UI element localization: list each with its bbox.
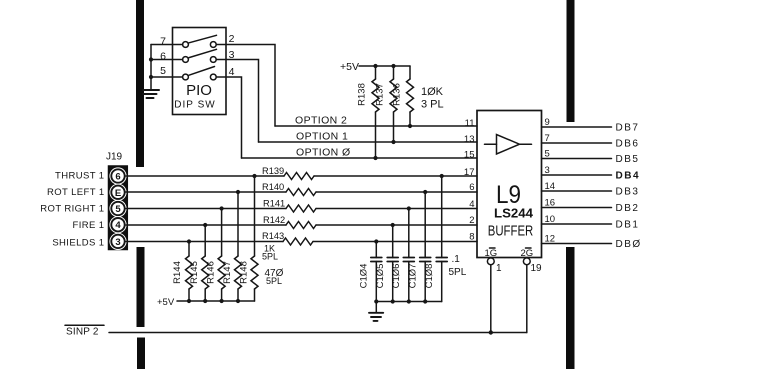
node: R137 to OPTION 1 xyxy=(391,140,395,144)
node: rail C106 xyxy=(407,299,411,303)
svg-text:R146: R146 xyxy=(206,261,217,284)
svg-text:.1: .1 xyxy=(452,254,461,265)
resistor R137 xyxy=(375,66,398,142)
+5V supply (pull-down rail) xyxy=(157,297,255,308)
switch SW2 (pins 6-3) xyxy=(183,49,217,62)
wire: DB7 xyxy=(542,123,640,134)
node: R138 to OPTION 0 xyxy=(373,156,377,160)
node: rail R146 xyxy=(220,299,224,303)
buffer L9 box xyxy=(477,111,542,258)
svg-text:3: 3 xyxy=(115,237,120,248)
svg-text:DB4: DB4 xyxy=(616,171,641,182)
svg-text:C1Ø6: C1Ø6 xyxy=(391,264,402,289)
capacitor C105 xyxy=(375,258,398,302)
svg-text:+5V: +5V xyxy=(157,297,175,308)
node: ROT RIGHT to C106 dropper xyxy=(407,206,411,210)
wire: DB0 xyxy=(542,239,642,250)
value label .1 5PL xyxy=(449,254,467,278)
switch SW3 (pins 5-4) xyxy=(183,67,217,80)
wire: dropper to C108 xyxy=(441,176,443,258)
connector J19 pin 6 (THRUST) xyxy=(109,167,126,184)
connector J19 pin 5 (ROT RIGHT) xyxy=(109,200,126,217)
node: FIRE to C105 dropper xyxy=(391,223,395,227)
capacitor C107 xyxy=(408,258,431,302)
resistor R144 xyxy=(172,256,193,301)
connector J19 pin 3 (SHIELDS) xyxy=(109,233,126,250)
svg-text:R138: R138 xyxy=(357,83,368,106)
svg-text:15: 15 xyxy=(464,150,475,161)
wire: OPTION 2 to pin 11 xyxy=(275,125,477,127)
buffer symbol triangle xyxy=(485,135,532,155)
svg-text:R142: R142 xyxy=(263,215,285,225)
wire: dropper to C106 xyxy=(408,209,410,258)
node: FIRE to R145 dropper xyxy=(203,223,207,227)
svg-text:5: 5 xyxy=(115,204,121,215)
node: +5V rail to R137 xyxy=(391,64,395,68)
svg-text:4: 4 xyxy=(469,199,474,210)
svg-text:R141: R141 xyxy=(263,199,285,209)
wire: 2G to SINP2 xyxy=(526,265,528,333)
svg-text:ROT RIGHT 1: ROT RIGHT 1 xyxy=(40,204,104,215)
wire: DB5 xyxy=(542,154,640,165)
page edge bars (decorative) xyxy=(136,0,575,369)
wire: dropper to R145 xyxy=(204,225,206,256)
svg-text:11: 11 xyxy=(465,118,475,129)
svg-text:5: 5 xyxy=(160,65,166,77)
svg-text:6: 6 xyxy=(115,172,120,183)
svg-text:J19: J19 xyxy=(106,152,123,163)
wire: DIP pin 3 to OPTION 1 xyxy=(216,60,258,143)
svg-text:BUFFER: BUFFER xyxy=(488,224,534,240)
svg-text:OPTION 2: OPTION 2 xyxy=(295,115,347,127)
wire: FIRE row to pin 2 xyxy=(126,224,477,226)
svg-text:OPTION Ø: OPTION Ø xyxy=(296,147,351,159)
wire: DIP pin 4 to OPTION 0 xyxy=(216,77,241,158)
svg-text:1ØK: 1ØK xyxy=(421,86,444,98)
node: ROT LEFT to R147 dropper xyxy=(236,190,240,194)
switch SW1 (pins 7-2) xyxy=(183,35,217,47)
svg-text:ROT LEFT 1: ROT LEFT 1 xyxy=(47,187,105,198)
svg-text:5PL: 5PL xyxy=(262,252,278,262)
node: rail C107 xyxy=(423,299,427,303)
svg-text:SHIELDS 1: SHIELDS 1 xyxy=(52,238,104,249)
resistor R147 xyxy=(222,256,242,301)
resistor R146 xyxy=(206,256,226,301)
resistor R140 xyxy=(262,182,316,196)
wire: dropper to R147 xyxy=(237,192,239,256)
buffer enable 1G pin 1 xyxy=(485,248,503,274)
svg-text:3 PL: 3 PL xyxy=(421,99,444,111)
node: SHIELDS to R144 dropper xyxy=(187,239,191,243)
svg-text:C1Ø5: C1Ø5 xyxy=(375,264,386,289)
svg-text:L9: L9 xyxy=(496,181,521,209)
DIP switch PIO box xyxy=(173,28,227,115)
wire: dropper to C105 xyxy=(392,225,394,258)
wire: SINP2 xyxy=(109,332,527,334)
ground (DIP switch) xyxy=(143,90,159,98)
wire: SHIELDS row to pin 8 xyxy=(126,241,477,243)
node: SHIELDS to C104 dropper xyxy=(374,239,378,243)
node: rail R145 xyxy=(203,299,207,303)
svg-text:19: 19 xyxy=(531,263,543,274)
svg-text:DB6: DB6 xyxy=(616,139,640,150)
svg-text:SINP 2: SINP 2 xyxy=(66,327,99,338)
wire: dropper to R148 xyxy=(254,176,256,256)
wire: OPTION 1 to pin 13 xyxy=(259,141,478,143)
svg-text:6: 6 xyxy=(469,182,474,193)
svg-text:R144: R144 xyxy=(172,261,183,284)
node: R136 to OPTION 2 xyxy=(408,124,412,128)
node: bus junction pin5 xyxy=(149,75,153,79)
svg-text:R148: R148 xyxy=(239,261,250,284)
svg-text:6: 6 xyxy=(160,51,166,63)
wire: DB2 xyxy=(542,203,640,214)
node: THRUST to C108 dropper xyxy=(440,174,444,178)
wire: DIP pin 2 to OPTION 2 xyxy=(216,45,275,127)
capacitor C104 xyxy=(359,258,382,302)
resistor R136 xyxy=(392,66,414,126)
svg-text:C1Ø8: C1Ø8 xyxy=(424,264,435,289)
resistor R138 xyxy=(357,66,380,158)
node: rail to ground tee xyxy=(374,299,378,303)
capacitor C108 xyxy=(424,258,447,302)
wire: DB1 xyxy=(542,220,640,231)
value label 1K 5PL xyxy=(262,244,278,262)
svg-text:13: 13 xyxy=(464,134,475,145)
svg-text:FIRE 1: FIRE 1 xyxy=(73,220,105,231)
svg-text:PIO: PIO xyxy=(186,82,212,99)
value label 470 5PL xyxy=(265,268,284,286)
node: rail R144 xyxy=(187,299,191,303)
svg-text:R145: R145 xyxy=(189,261,200,284)
svg-text:R140: R140 xyxy=(262,182,284,192)
node: rail R147 xyxy=(236,299,240,303)
svg-text:DB3: DB3 xyxy=(616,187,640,198)
wire: THRUST row to pin 17 xyxy=(126,175,477,177)
wire: DIP common bus to ground xyxy=(151,45,183,91)
wire: dropper to C104 xyxy=(375,242,377,258)
svg-text:4: 4 xyxy=(115,220,121,231)
ground (capacitors) xyxy=(369,302,383,321)
wire: DB6 xyxy=(542,139,640,150)
svg-text:OPTION 1: OPTION 1 xyxy=(296,131,348,143)
resistor R143 xyxy=(262,231,313,245)
svg-text:DB5: DB5 xyxy=(616,154,640,165)
wire: OPTION 0 to pin 15 xyxy=(242,157,478,159)
svg-text:7: 7 xyxy=(160,36,166,48)
node: THRUST to R148 dropper xyxy=(252,174,256,178)
wire: dropper to R144 xyxy=(188,242,190,257)
+5V supply (pull-up rail) xyxy=(340,61,410,73)
node: ROT LEFT to C107 dropper xyxy=(423,190,427,194)
wire: 1G to SINP2 xyxy=(490,265,492,333)
svg-text:R143: R143 xyxy=(262,231,284,241)
svg-text:R136: R136 xyxy=(392,83,403,106)
resistor R148 xyxy=(239,256,259,301)
svg-text:1: 1 xyxy=(496,263,502,274)
svg-text:DIP SW: DIP SW xyxy=(174,100,215,111)
svg-text:E: E xyxy=(115,188,121,199)
svg-text:DB2: DB2 xyxy=(616,203,640,214)
svg-text:DBØ: DBØ xyxy=(616,239,642,250)
svg-text:2: 2 xyxy=(229,33,235,45)
node: bus junction pin6 xyxy=(149,57,153,61)
svg-text:4: 4 xyxy=(229,66,235,78)
svg-text:LS244: LS244 xyxy=(494,207,533,221)
svg-text:2: 2 xyxy=(469,215,474,226)
svg-text:5PL: 5PL xyxy=(266,276,282,286)
svg-text:+5V: +5V xyxy=(340,61,359,73)
wire: ROT LEFT row to pin 6 xyxy=(126,191,477,193)
svg-text:R139: R139 xyxy=(262,166,284,176)
wire: dropper to C107 xyxy=(424,192,426,258)
connector J19 xyxy=(106,152,127,250)
wire: capacitor ground rail xyxy=(376,301,441,303)
connector J19 pin 4 (FIRE) xyxy=(109,216,126,233)
node: rail C105 xyxy=(391,299,395,303)
svg-text:DB7: DB7 xyxy=(616,123,640,134)
svg-text:THRUST 1: THRUST 1 xyxy=(55,171,104,182)
svg-text:5PL: 5PL xyxy=(449,267,467,278)
resistor R139 xyxy=(262,166,314,180)
resistor R142 xyxy=(263,215,316,229)
svg-text:8: 8 xyxy=(469,232,474,243)
capacitor C106 xyxy=(391,258,414,302)
net label SINP 2 (active low) xyxy=(65,325,104,337)
wire: DB3 xyxy=(542,187,640,198)
svg-text:R147: R147 xyxy=(222,261,233,284)
resistor R141 xyxy=(263,199,316,213)
svg-text:C1Ø7: C1Ø7 xyxy=(408,264,419,289)
svg-text:17: 17 xyxy=(464,167,475,178)
wire: dropper to R146 xyxy=(221,209,223,257)
node: 1G junction on SINP2 xyxy=(489,330,493,334)
wire: ROT RIGHT row to pin 4 xyxy=(126,208,477,210)
connector J19 pin E (ROT LEFT) xyxy=(109,184,126,201)
node: ROT RIGHT to R146 dropper xyxy=(220,206,224,210)
node: +5V rail to R138 xyxy=(373,64,377,68)
svg-text:C1Ø4: C1Ø4 xyxy=(359,264,370,289)
svg-text:R137: R137 xyxy=(375,83,386,106)
buffer enable 2G pin 19 xyxy=(521,248,543,274)
wire: DB4 xyxy=(542,171,641,182)
svg-text:DB1: DB1 xyxy=(616,220,640,231)
value label 10K 3PL xyxy=(421,86,444,111)
resistor R145 xyxy=(189,256,209,301)
